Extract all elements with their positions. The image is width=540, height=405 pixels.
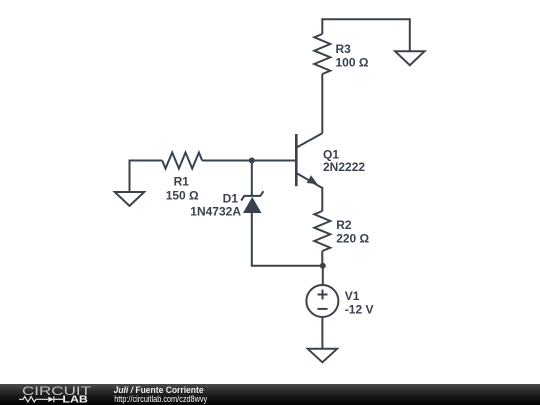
ground symbol top right xyxy=(395,51,424,65)
transistor Q1 collector lead xyxy=(296,133,322,147)
svg-text:220 Ω: 220 Ω xyxy=(336,231,369,245)
footer bar xyxy=(0,384,540,405)
logo resistor-diode symbol xyxy=(19,396,63,402)
svg-text:http://circuitlab.com/czd8wvy: http://circuitlab.com/czd8wvy xyxy=(114,394,207,404)
svg-text:100 Ω: 100 Ω xyxy=(336,55,369,69)
resistor R2 xyxy=(314,211,330,251)
transistor Q1 emitter lead xyxy=(296,173,322,211)
wire top rail from R3 to ground xyxy=(322,19,410,51)
svg-text:-12 V: -12 V xyxy=(345,302,374,316)
ground symbol bottom xyxy=(308,349,337,363)
wire R2 bottom to node xyxy=(321,251,323,266)
resistor R3 xyxy=(314,34,330,74)
resistor R1 xyxy=(162,153,202,169)
wire R1 with ground lead xyxy=(130,161,163,192)
wire R1 to base node xyxy=(202,160,252,162)
voltage source V1 circle xyxy=(306,285,338,317)
svg-text:D1: D1 xyxy=(223,192,239,206)
svg-text:150 Ω: 150 Ω xyxy=(166,189,199,203)
wire V1 to ground xyxy=(321,318,323,349)
ground symbol left xyxy=(115,192,144,206)
svg-text:Q1: Q1 xyxy=(323,147,339,161)
svg-text:R2: R2 xyxy=(336,218,352,232)
wire R3 bottom to collector xyxy=(321,74,323,133)
svg-text:V1: V1 xyxy=(345,289,360,303)
transistor Q1 base bar xyxy=(295,134,298,186)
svg-text:R1: R1 xyxy=(174,175,190,189)
V1 plus sign xyxy=(318,290,328,300)
svg-text:2N2222: 2N2222 xyxy=(323,160,365,174)
wire D1 to bottom rail xyxy=(252,213,323,266)
diode D1 triangle xyxy=(243,197,262,213)
node base junction xyxy=(249,158,255,164)
transistor Q1 emitter arrow xyxy=(307,175,318,184)
wire base node to Q1 base xyxy=(252,160,296,162)
svg-text:R3: R3 xyxy=(336,42,352,56)
svg-text:1N4732A: 1N4732A xyxy=(190,205,241,219)
V1 minus sign xyxy=(318,308,328,310)
diode D1 zener cathode bar xyxy=(241,191,263,200)
node emitter rail junction xyxy=(320,263,326,269)
svg-text:LAB: LAB xyxy=(62,394,88,405)
wire zener node to D1 xyxy=(251,161,253,196)
wire node to V1 xyxy=(322,266,324,284)
